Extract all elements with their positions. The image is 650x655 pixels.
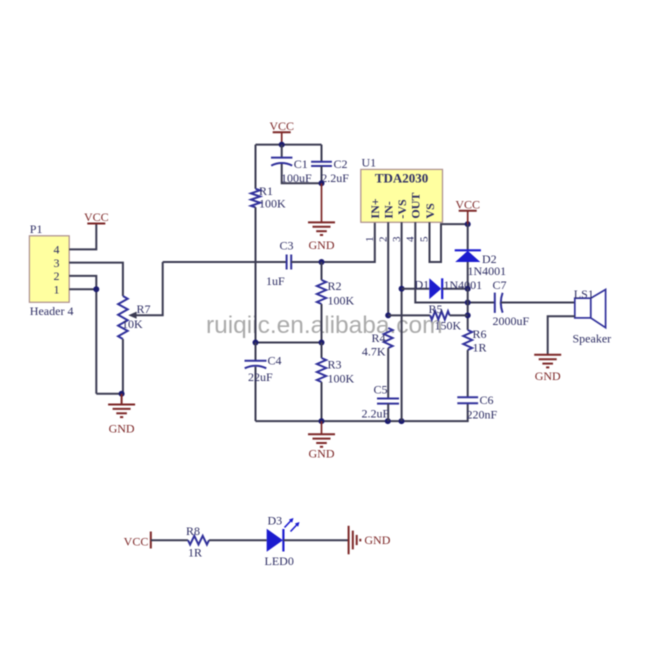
svg-text:GND: GND (364, 533, 390, 547)
junction P1 pin1/pin2 (93, 286, 99, 292)
junction C1/C2 bottom (319, 180, 325, 222)
wire pin2 net to ground node (96, 393, 121, 395)
wire VCC to R8 (151, 539, 188, 541)
resistor R5 150K (388, 302, 468, 333)
svg-text:VCC: VCC (124, 534, 149, 548)
svg-text:LS1: LS1 (574, 287, 594, 301)
svg-text:2000uF: 2000uF (493, 314, 530, 328)
svg-text:GND: GND (535, 369, 561, 383)
ground GND (below P1) (108, 405, 135, 436)
capacitor C6 220nF (457, 393, 497, 422)
svg-text:C1: C1 (294, 157, 308, 171)
svg-text:D3: D3 (268, 514, 283, 528)
svg-text:3: 3 (54, 256, 60, 270)
wire mid rail (253, 340, 325, 346)
LED D3 LED0 (265, 514, 300, 569)
svg-text:100K: 100K (259, 197, 286, 211)
ground GND (below C2) (308, 222, 335, 251)
power port VCC (LED row) (124, 532, 151, 549)
svg-text:TDA2030: TDA2030 (375, 171, 428, 186)
capacitor C3 1uF (266, 238, 294, 288)
svg-text:OUT: OUT (409, 193, 423, 219)
svg-text:R5: R5 (429, 302, 443, 316)
capacitor C2 2.2uF (311, 145, 349, 185)
resistor R8 1R (186, 524, 209, 560)
svg-text:1R: 1R (188, 546, 202, 560)
speaker LS1 (573, 287, 612, 346)
svg-text:R2: R2 (328, 279, 342, 293)
wire P1 pin2 down (69, 276, 96, 394)
wire U1 pin4 (OUT) to C7 (415, 222, 494, 305)
svg-text:2.2uF: 2.2uF (321, 171, 349, 185)
svg-text:C2: C2 (334, 157, 348, 171)
wire LED to GND port (283, 539, 348, 541)
svg-text:P1: P1 (30, 222, 43, 236)
resistor R3 100K (317, 343, 355, 422)
wire speaker to ground (548, 316, 575, 355)
capacitor C1 100uF (271, 145, 322, 185)
wire R7 bottom to ground junction (119, 339, 125, 405)
wire C3 to U1 pin1 (IN+) (291, 222, 375, 262)
wire top rail (256, 142, 322, 148)
resistor R6 1R (463, 327, 486, 397)
svg-text:100uF: 100uF (281, 171, 312, 185)
resistor R1 100K (251, 145, 286, 343)
power port VCC (right of U1) (455, 197, 480, 224)
svg-text:C7: C7 (493, 278, 507, 292)
wire C7 to speaker (501, 302, 575, 304)
power port VCC (above P1) (84, 210, 109, 224)
wire bottom ground rail (256, 403, 468, 424)
svg-text:VCC: VCC (455, 197, 480, 211)
svg-text:C4: C4 (268, 354, 282, 368)
svg-text:C6: C6 (480, 393, 494, 407)
svg-text:4.7K: 4.7K (362, 345, 386, 359)
svg-text:VS: VS (423, 203, 437, 219)
svg-text:100K: 100K (328, 372, 355, 386)
svg-text:VCC: VCC (84, 210, 109, 224)
svg-text:R3: R3 (328, 358, 342, 372)
svg-text:-VS: -VS (395, 199, 409, 219)
svg-text:GND: GND (309, 447, 335, 461)
svg-text:GND: GND (309, 238, 335, 252)
svg-text:U1: U1 (362, 156, 377, 170)
capacitor C4 22uF (245, 343, 282, 422)
svg-text:2.2uF: 2.2uF (362, 407, 390, 421)
op-amp U1 TDA2030 (361, 156, 443, 223)
svg-text:IN-: IN- (382, 201, 396, 218)
svg-text:C3: C3 (280, 238, 294, 252)
svg-text:Speaker: Speaker (573, 332, 612, 346)
connector P1 (Header 4) (29, 222, 73, 318)
svg-text:220nF: 220nF (467, 408, 498, 422)
svg-text:C5: C5 (374, 383, 388, 397)
wire OUT column (465, 289, 471, 330)
watermark (206, 312, 443, 339)
junction R2 top on input wire (319, 259, 325, 265)
svg-text:1: 1 (364, 237, 376, 243)
wire U1 pin2 (IN-) down (385, 222, 391, 318)
power port VCC (top, above C1) (269, 119, 294, 145)
U1 pin numbers 1-5 (364, 236, 431, 242)
svg-text:R4: R4 (371, 331, 385, 345)
capacitor C7 2000uF (493, 278, 530, 328)
resistor R2 100K (317, 262, 355, 343)
potentiometer R7 10K (118, 262, 163, 339)
capacitor C5 2.2uF (362, 383, 400, 422)
svg-text:1N4001: 1N4001 (468, 264, 507, 278)
svg-text:100K: 100K (328, 294, 355, 308)
ground port GND (LED row, sideways) (349, 526, 391, 555)
svg-text:IN+: IN+ (368, 198, 382, 218)
wire input net: R7 wiper to C3 (163, 261, 287, 263)
svg-text:R8: R8 (186, 524, 200, 538)
svg-text:D1: D1 (415, 277, 430, 291)
svg-text:2: 2 (54, 269, 60, 283)
wire P1 pin3 to R7 top (69, 263, 123, 296)
svg-text:150K: 150K (435, 319, 462, 333)
svg-text:4: 4 (54, 243, 60, 257)
svg-text:22uF: 22uF (248, 370, 273, 384)
svg-text:R6: R6 (473, 327, 487, 341)
svg-text:1R: 1R (473, 341, 487, 355)
svg-text:R7: R7 (137, 302, 151, 316)
resistor R4 4.7K (362, 328, 393, 398)
svg-text:1N4001: 1N4001 (444, 278, 483, 292)
ground GND (bottom rail) (308, 421, 335, 460)
svg-text:1uF: 1uF (266, 274, 285, 288)
wire U1 pin5 (VS) to VCC node (430, 221, 471, 262)
svg-text:Header 4: Header 4 (30, 304, 74, 318)
svg-text:VCC: VCC (269, 119, 294, 133)
diode D1 1N4001 (402, 277, 483, 299)
wire P1 pin4 to VCC (69, 224, 96, 250)
svg-text:10K: 10K (122, 317, 143, 331)
diode D2 1N4001 (455, 224, 506, 289)
svg-text:LED0: LED0 (265, 554, 294, 568)
ground GND (speaker) (534, 355, 561, 383)
wire R8 to LED (209, 539, 267, 541)
wire U1 pin3 (-VS) down to rail (399, 222, 405, 421)
wire P1 pin1 (69, 288, 96, 290)
svg-text:1: 1 (54, 283, 60, 297)
svg-text:GND: GND (109, 422, 135, 436)
